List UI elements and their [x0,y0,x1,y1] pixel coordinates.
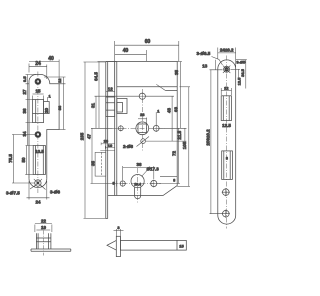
internal line right of cylinder [160,176,177,178]
screw post top [138,92,146,100]
case top partition line [117,86,177,88]
svg-text:2-Ø8: 2-Ø8 [123,144,134,149]
svg-text:24±0.2: 24±0.2 [220,48,234,53]
svg-text:Ø17.3: Ø17.3 [147,167,160,172]
svg-text:19: 19 [41,225,47,230]
follower centerline horizontal [113,127,167,129]
dim 3 (faceplate thickness) [114,225,124,240]
svg-text:3-Ø5: 3-Ø5 [236,60,246,65]
case small partition right [166,90,178,92]
svg-text:36: 36 [22,108,27,114]
label 3-O7.5 [6,186,35,196]
cylinder row centerline horizontal [114,183,162,185]
svg-text:209±0.2: 209±0.2 [205,129,210,146]
dim 40 top [115,48,147,61]
small hole left of cylinder [119,180,126,187]
svg-text:50: 50 [21,157,26,163]
svg-text:12.5: 12.5 [222,123,231,128]
svg-text:47: 47 [86,134,91,140]
small hole left of follower [118,125,124,131]
svg-text:21.5: 21.5 [177,130,182,139]
dim 209+-0.2 [205,70,222,214]
right dim 36.5 [236,60,247,89]
svg-text:63: 63 [173,107,178,113]
svg-text:10.5: 10.5 [35,149,44,154]
svg-text:105: 105 [182,141,187,149]
hole 2-O8 [123,137,149,149]
strike plate centerline [37,72,39,194]
latch bolt (protruding) [106,97,115,117]
dim 24 top [29,61,47,79]
latch opening [33,100,44,123]
dim 40 top [29,56,59,82]
faceplate hidden slot [95,152,106,176]
faceplate centerline [226,56,228,229]
svg-text:34: 34 [22,131,27,137]
dims 20 / 10 [100,139,114,151]
svg-text:31: 31 [90,103,95,109]
svg-text:3-Ø7.5: 3-Ø7.5 [6,191,20,196]
deadbolt window [222,151,233,180]
strike box centerline [43,231,45,256]
svg-text:22: 22 [41,218,47,223]
lock case outline [106,62,177,196]
dim 12 (latch window) [221,85,231,95]
leader diagonal top right [156,84,165,90]
svg-text:64.5: 64.5 [93,72,98,81]
euro cylinder hole [131,175,144,199]
dim 22 [35,218,52,232]
follower square dim 8 [138,112,147,124]
cylinder centerline vertical [137,168,139,203]
right dim 48 [166,96,172,141]
svg-text:35: 35 [174,70,179,76]
dim 60 top [115,39,179,62]
svg-text:10.4: 10.4 [134,183,141,187]
label 3-O6 [41,186,61,195]
dim 12 (latch) [106,62,115,96]
screw post bottom [150,180,158,188]
label O17.3 [142,167,160,177]
svg-text:20: 20 [44,108,49,114]
svg-text:15: 15 [179,243,184,248]
dim 15 (latch opening) [33,89,44,102]
left dim 35 (slot) [90,161,95,167]
dim 24+-0.2 [218,48,236,68]
svg-text:86: 86 [57,105,62,110]
svg-text:13: 13 [202,64,208,69]
svg-text:40: 40 [48,56,54,62]
screw hole top [35,79,41,85]
latch lip tab with 20 label [44,102,50,114]
right dim 105 [177,141,190,186]
svg-text:72: 72 [171,151,176,157]
screw hole top (dark, spokes) [223,66,230,73]
dim 13 [202,60,215,70]
svg-text:40: 40 [123,48,129,54]
svg-text:24: 24 [35,61,41,67]
screw hole bottom [222,210,230,218]
left dim chain: 9.5 / 27 / 36 / 34 [22,75,36,146]
svg-text:1: 1 [49,94,52,99]
svg-text:60: 60 [145,39,151,45]
right dim 86 [57,84,65,130]
svg-text:12: 12 [224,85,229,90]
left dim 235 [79,62,105,219]
svg-text:24: 24 [35,200,41,205]
svg-text:1: 1 [157,109,160,114]
svg-text:36.5: 36.5 [240,68,245,77]
left dim 50 [21,146,33,175]
svg-text:3: 3 [117,225,120,230]
left dim 31 [90,96,139,128]
follower hub [136,122,149,135]
right dim 35 [145,62,182,129]
svg-text:36: 36 [136,162,142,167]
lower opening 10.5 [33,146,45,175]
left dim 75.5 [8,135,35,184]
follower centerline vertical [141,89,143,152]
right dim 63 [173,87,190,187]
dim 36 (cylinder row) [123,162,154,180]
svg-text:12: 12 [108,86,114,91]
faceplate section bar [116,236,120,256]
faceplate outline [218,60,236,224]
dim 24 bottom [27,181,50,205]
svg-text:48: 48 [166,108,171,114]
svg-text:15: 15 [35,89,41,94]
svg-text:3-Ø6: 3-Ø6 [50,190,61,195]
svg-text:35: 35 [90,161,95,167]
dim 8 small [113,181,117,187]
left dim 64.5 [93,62,116,129]
latch guide blocks inside case [117,99,127,114]
small hole right of follower [153,125,160,132]
strike box section [31,233,71,251]
svg-text:9.5: 9.5 [22,76,27,82]
label 3-O9.5 [197,51,223,65]
svg-text:3-Ø9.5: 3-Ø9.5 [197,51,211,56]
strike plate outline [29,74,59,187]
latch bolt body [120,240,186,250]
ext line small hole right [156,109,160,126]
right dim 21.5 [146,128,187,141]
screw hole middle [35,132,41,138]
svg-text:75.5: 75.5 [8,154,13,163]
svg-text:28: 28 [140,112,145,117]
latch bevel tip [107,240,116,250]
right dim 12.5 [231,69,242,85]
svg-text:235: 235 [79,132,84,140]
right dim 72 [157,128,187,183]
left dim 47 [86,128,113,183]
svg-text:8: 8 [173,179,175,183]
screw hole mid [222,188,230,196]
svg-text:8: 8 [226,157,228,161]
latch window [221,96,231,121]
screw hole bottom with spokes [34,179,42,187]
svg-text:27: 27 [22,89,27,95]
svg-text:12: 12 [57,78,62,83]
right dim 12 [44,77,66,84]
dim 19 [36,225,50,230]
faceplate strip [105,62,107,219]
dim 1 (tab) [48,94,52,102]
svg-text:12.5: 12.5 [237,77,242,86]
case front walls [114,62,116,196]
